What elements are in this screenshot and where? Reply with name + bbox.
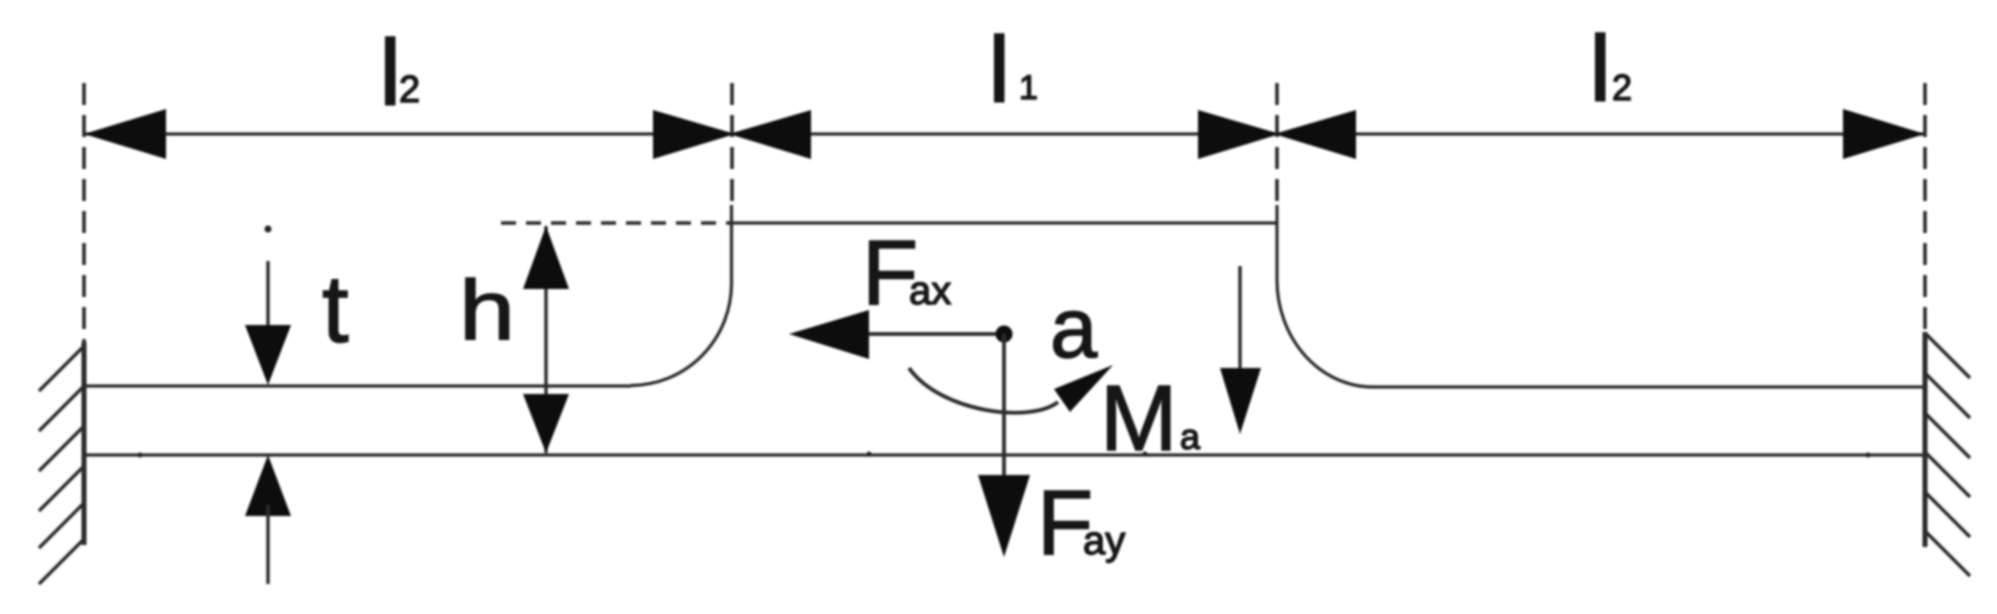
- svg-text:l: l: [1590, 18, 1610, 120]
- svg-text:ay: ay: [1083, 519, 1125, 563]
- extension line at x=732 (dashed): [730, 83, 734, 205]
- extension line at x=1277 (dashed): [1275, 83, 1279, 205]
- dimension t: centre dot: [265, 226, 272, 233]
- force Fax arrowhead (left): [789, 310, 869, 359]
- load arrowhead (down): [1220, 368, 1261, 434]
- dimension arrowhead right end: [1843, 109, 1925, 159]
- dimension h line: [544, 226, 547, 453]
- svg-text:a: a: [1180, 416, 1201, 457]
- svg-text:2: 2: [399, 69, 420, 111]
- node a dot: [996, 326, 1013, 343]
- svg-text:M: M: [1100, 366, 1177, 470]
- right shoulder fillet: [1277, 205, 1373, 387]
- right support wall: [1923, 332, 1928, 547]
- left support wall: [82, 342, 87, 545]
- tick dot on bottom line 2: [867, 452, 872, 457]
- svg-text:ax: ax: [909, 269, 951, 313]
- moment Ma arrowhead: [1054, 365, 1113, 412]
- tick dot on bottom line 1: [138, 453, 143, 458]
- left shoulder fillet: [631, 205, 732, 386]
- left support hatching: [39, 346, 84, 391]
- svg-text:l: l: [380, 22, 400, 124]
- svg-text:l: l: [989, 19, 1009, 121]
- dimension arrowhead left end: [84, 109, 166, 159]
- tick dot on bottom line 3: [1143, 452, 1148, 457]
- dashed top continuation line: [501, 221, 731, 225]
- svg-text:1: 1: [1019, 69, 1038, 107]
- dimension bowtie arrowheads at x=732: [653, 110, 735, 159]
- moment Ma arc: [909, 368, 1058, 413]
- dimension t lower line: [266, 505, 269, 584]
- beam raised top line: [731, 221, 1277, 224]
- load arrow line at right fillet: [1238, 266, 1241, 380]
- force Fax line: [866, 332, 1004, 336]
- force Fay line: [1002, 334, 1006, 480]
- svg-text:t: t: [322, 256, 349, 363]
- dimension t upper line: [266, 261, 269, 340]
- beam thin top line right: [1372, 385, 1925, 388]
- svg-text:a: a: [1050, 281, 1098, 376]
- extension line right (dashed): [1923, 83, 1927, 342]
- dimension t upper arrowhead (down): [245, 325, 291, 385]
- beam bottom line: [84, 453, 1925, 456]
- tick dot on bottom line 4: [1866, 453, 1871, 458]
- extension line left (dashed): [82, 83, 86, 342]
- dimension bowtie arrowheads at x=1277: [1198, 110, 1280, 159]
- beam thin top line left: [84, 384, 631, 387]
- svg-text:2: 2: [1612, 67, 1632, 108]
- dimension line: [84, 132, 1925, 135]
- dimension h upper arrowhead (up): [523, 226, 569, 289]
- dimension h lower arrowhead (down): [523, 394, 569, 453]
- svg-text:h: h: [459, 263, 515, 357]
- right support hatching: [1925, 333, 1970, 378]
- force Fay arrowhead (down): [978, 475, 1030, 557]
- dimension t lower arrowhead (up): [245, 455, 291, 516]
